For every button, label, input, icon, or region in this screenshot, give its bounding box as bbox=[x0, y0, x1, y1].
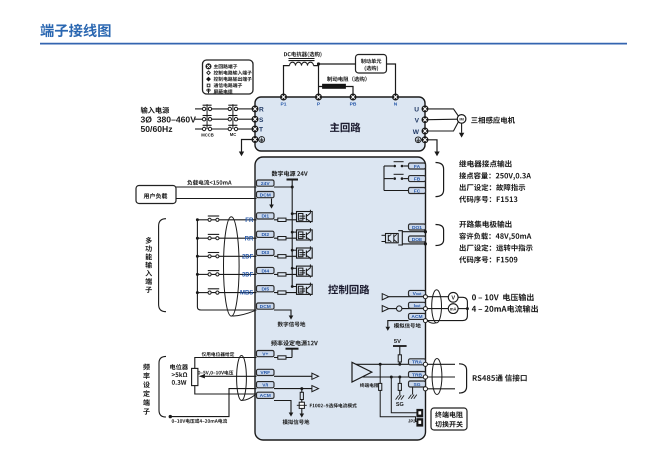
wire TRB external bbox=[428, 376, 456, 378]
breaker MCCB pole R bbox=[202, 105, 211, 110]
svg-text:DI4: DI4 bbox=[261, 268, 269, 274]
wire input 2DF row bbox=[197, 255, 256, 257]
legend text 控制电路输出端子 bbox=[214, 77, 252, 82]
wire input RR row bbox=[197, 237, 256, 239]
terminal box ACM freq bbox=[257, 392, 275, 399]
legend symbol control input terminal bbox=[207, 71, 211, 75]
arrowhead pot wiper bbox=[199, 374, 205, 378]
junction V/I branch bbox=[300, 387, 303, 390]
edge circle TRB bbox=[423, 375, 427, 379]
breaker MCCB pole T bbox=[202, 125, 211, 130]
label 0.3W bbox=[172, 380, 187, 385]
svg-text:FA: FA bbox=[414, 164, 421, 170]
svg-text:ACM: ACM bbox=[411, 314, 422, 320]
control circuit block 控制回路 bbox=[255, 157, 426, 440]
terminal box DOE bbox=[409, 236, 426, 243]
resistor 5V pullup bbox=[398, 355, 401, 362]
wire DI2 to resistor bbox=[274, 237, 297, 239]
svg-text:MC: MC bbox=[230, 132, 237, 137]
wire Iout left bbox=[389, 308, 397, 310]
arrowhead DCM ground bbox=[269, 205, 274, 209]
terminal box TRA bbox=[409, 359, 426, 366]
label 多功能输入端子 (vertical) bbox=[145, 237, 152, 293]
terminal box DI3 bbox=[257, 249, 275, 256]
junction mA loop bbox=[466, 307, 469, 310]
wire external V/I source bbox=[170, 389, 256, 417]
wire DCM2 internal bbox=[274, 310, 291, 316]
svg-text:FR: FR bbox=[245, 218, 254, 224]
resistor TRB pulldown bbox=[398, 383, 401, 390]
wire V to motor bbox=[428, 118, 457, 121]
contactor MC pole R bbox=[228, 105, 238, 110]
wire relay common vertical bbox=[383, 166, 385, 191]
contactor MC linkage bbox=[232, 104, 234, 129]
wire user load to DCM bbox=[176, 198, 257, 200]
svg-text:SG: SG bbox=[413, 382, 420, 388]
wire TRB branch to JP2 bbox=[391, 377, 417, 413]
svg-text:V/I: V/I bbox=[262, 382, 269, 388]
resistor DI2 bbox=[278, 237, 286, 240]
wire input phase S bbox=[195, 118, 252, 120]
junction FR common bbox=[196, 218, 199, 221]
label 终端电阻 bbox=[435, 411, 463, 418]
wire input MBS row bbox=[197, 292, 256, 294]
ground arrow right bbox=[434, 152, 439, 157]
brace 频率设定端子 bbox=[159, 356, 166, 417]
motor M (IM) bbox=[457, 115, 466, 124]
inductor DC reactor bbox=[289, 59, 315, 66]
terminal S bbox=[252, 116, 258, 122]
wire TRA bbox=[356, 363, 409, 365]
label >5kΩ bbox=[172, 372, 188, 377]
junction 24V rail bbox=[291, 186, 294, 189]
legend symbol control output terminal bbox=[207, 77, 211, 81]
terminal box ACM analog out bbox=[409, 313, 426, 320]
buffer amp Vout bbox=[382, 294, 389, 300]
junction TRA termination bbox=[379, 363, 382, 366]
label 0-10V电压或4-20mA电流 bbox=[172, 419, 227, 424]
power rail bar 24V bbox=[287, 179, 299, 181]
svg-text:V+: V+ bbox=[262, 351, 268, 357]
label 容许负载：48V,50mA bbox=[459, 233, 531, 241]
relay contact FB (NC) bbox=[393, 174, 403, 180]
svg-text:R: R bbox=[259, 107, 264, 114]
svg-text:DI1: DI1 bbox=[261, 214, 269, 220]
label 三相感应电机 bbox=[471, 117, 515, 124]
optocoupler DI2 bbox=[292, 228, 312, 241]
wire SG to chassis bbox=[412, 387, 414, 394]
svg-text:mA: mA bbox=[450, 306, 457, 311]
wire DOE to edge bbox=[402, 243, 425, 245]
terminal PE right bbox=[422, 137, 428, 143]
label 继电器接点输出 bbox=[459, 160, 511, 167]
svg-text:V: V bbox=[451, 295, 455, 301]
wire V/I branch down bbox=[301, 389, 303, 414]
ground arrow left bbox=[239, 152, 244, 157]
switch MBS bbox=[208, 289, 219, 294]
terminal P1 bbox=[281, 94, 287, 100]
svg-text:IM: IM bbox=[459, 117, 464, 122]
terminal box V/I bbox=[257, 382, 275, 389]
label 切换开关 bbox=[435, 421, 463, 428]
svg-text:N: N bbox=[394, 102, 398, 108]
switch FR bbox=[208, 216, 219, 221]
label 电位器 bbox=[170, 364, 188, 370]
resistor V+ internal bbox=[278, 356, 286, 359]
wire U to motor bbox=[428, 109, 458, 116]
legend text 控制电路输入端子 bbox=[214, 70, 252, 75]
resistor termination bbox=[379, 383, 382, 390]
wire V+ internal bbox=[274, 349, 292, 358]
label 4-20mA电流输出 bbox=[472, 305, 538, 313]
svg-text:T: T bbox=[259, 127, 263, 134]
junction DO1 edge bbox=[424, 230, 427, 233]
arrowhead ACM freq ground bbox=[289, 413, 294, 417]
junction TRB pulldown bbox=[398, 376, 401, 379]
terminal box TRB bbox=[409, 372, 426, 379]
wire pot top to V+ bbox=[195, 358, 257, 369]
meter V bbox=[448, 292, 458, 302]
wire TRA external bbox=[428, 363, 456, 365]
meter mA bbox=[448, 304, 458, 314]
terminal box Vout bbox=[409, 290, 426, 297]
terminal V bbox=[422, 117, 428, 123]
arrowhead DCM2 ground bbox=[289, 316, 294, 320]
wire mA to loop bbox=[458, 308, 467, 310]
wire 24V rail down bbox=[291, 187, 293, 287]
svg-text:S: S bbox=[259, 117, 264, 124]
legend text 主回路端子 bbox=[214, 64, 238, 69]
edge circle Iout bbox=[423, 307, 427, 311]
svg-text:PB: PB bbox=[350, 102, 357, 108]
resistor DI1 bbox=[278, 218, 286, 221]
svg-text:W: W bbox=[413, 129, 420, 136]
svg-text:3DF: 3DF bbox=[242, 273, 254, 279]
wire motor to ground bbox=[461, 123, 463, 133]
terminal box DO1 bbox=[409, 224, 426, 231]
svg-text:ACM: ACM bbox=[260, 393, 271, 399]
driver triangle RS485 bbox=[352, 362, 372, 382]
wire DCM internal ground stub bbox=[271, 199, 273, 205]
braking unit box 制动单元(选购) bbox=[356, 55, 387, 74]
resistor DI4 bbox=[278, 273, 286, 276]
breaker MCCB linkage bbox=[206, 104, 208, 129]
label 代码序号：F1513 bbox=[459, 196, 517, 203]
terminal N bbox=[393, 94, 399, 100]
junction rail MBS bbox=[291, 285, 294, 288]
junction RR common bbox=[196, 237, 199, 240]
wire DI3 to resistor bbox=[274, 255, 297, 257]
label 输入电源 bbox=[141, 107, 170, 114]
breaker MCCB pole S bbox=[202, 116, 211, 121]
junction P leg / braking unit bbox=[317, 62, 320, 65]
wire right ground elbow bbox=[428, 140, 437, 152]
terminator switch box bbox=[431, 408, 467, 430]
terminal box V+ bbox=[257, 351, 275, 358]
terminal U bbox=[422, 106, 428, 112]
wire DO1 to edge bbox=[402, 231, 425, 233]
shield ellipse analog out bbox=[432, 290, 442, 323]
wire 5V pullup bbox=[399, 346, 401, 364]
terminal box DI1 bbox=[257, 213, 275, 220]
junction 3DF common bbox=[196, 273, 199, 276]
wire DI5 to resistor bbox=[274, 292, 297, 294]
wire Iout right bbox=[402, 308, 448, 310]
shield ellipse frequency set bbox=[237, 356, 247, 401]
svg-text:DI3: DI3 bbox=[261, 250, 269, 256]
resistor DI3 bbox=[278, 255, 286, 258]
wire braking unit right to N bbox=[387, 64, 396, 94]
label 频率设定端子 (vertical) bbox=[143, 364, 150, 415]
power rail bar 12V bbox=[286, 348, 299, 350]
title 端子接线图 bbox=[40, 24, 110, 38]
wire ACM freq internal bbox=[274, 401, 291, 413]
terminal box 24V bbox=[257, 180, 275, 187]
wire DI4 to resistor bbox=[274, 273, 297, 275]
junction rail RR bbox=[291, 231, 294, 234]
label F1002-9选择电流模式 bbox=[310, 403, 357, 408]
junction MBS common bbox=[196, 291, 199, 294]
svg-text:24V: 24V bbox=[261, 181, 270, 187]
svg-text:U: U bbox=[414, 107, 419, 114]
wire input FR row bbox=[197, 219, 256, 221]
svg-text:Vout: Vout bbox=[413, 291, 423, 297]
junction rail 2DF bbox=[291, 249, 294, 252]
wire TRB bbox=[362, 376, 409, 378]
label 出厂设定：运转中指示 bbox=[460, 244, 533, 251]
user load box 用户负载 bbox=[136, 186, 176, 204]
terminal box DCM 2 bbox=[257, 303, 275, 310]
resistor DI5 bbox=[278, 291, 286, 294]
svg-text:V: V bbox=[415, 117, 420, 124]
svg-text:MCCB: MCCB bbox=[201, 133, 214, 138]
current source circle Iout bbox=[397, 306, 402, 311]
svg-text:RR: RR bbox=[245, 236, 254, 242]
svg-text:DCM: DCM bbox=[260, 304, 271, 310]
signal triangle V/I bbox=[312, 386, 319, 392]
wire V/I internal bbox=[274, 388, 312, 390]
svg-text:JP2: JP2 bbox=[408, 418, 416, 423]
label 数字信号地 bbox=[278, 322, 306, 327]
optocoupler DI5 bbox=[292, 283, 312, 296]
wire W to motor bbox=[428, 122, 458, 131]
edge circle Vout bbox=[423, 295, 427, 299]
wire pot bottom to ACM bbox=[195, 386, 257, 394]
shield tail frequency set bbox=[242, 395, 256, 401]
label 负载电流<150mA bbox=[187, 180, 231, 185]
contactor MC pole S bbox=[228, 116, 238, 121]
wire input 3DF row bbox=[197, 273, 256, 275]
svg-text:FC: FC bbox=[414, 188, 421, 194]
wire reactor left leg to P1 bbox=[284, 66, 290, 94]
optocoupler DI3 bbox=[292, 246, 312, 259]
bracket open collector bbox=[436, 225, 444, 246]
wire FA contact bbox=[384, 165, 409, 167]
junction external source dot bbox=[169, 415, 172, 418]
label 制动单元 bbox=[361, 59, 382, 64]
label DC电抗器(选购) bbox=[284, 52, 322, 58]
wire FC common bbox=[384, 190, 409, 192]
label 出厂设定：故障指示 bbox=[460, 184, 526, 191]
brace 多功能输入端子 bbox=[159, 219, 166, 312]
terminal box FA bbox=[409, 163, 426, 170]
terminal box DI4 bbox=[257, 267, 275, 274]
terminal box DI5 bbox=[257, 286, 275, 293]
terminal P bbox=[316, 94, 322, 100]
svg-text:DI5: DI5 bbox=[261, 286, 269, 292]
jumper box F1002-9 bbox=[297, 402, 307, 408]
junction rail FR bbox=[291, 212, 294, 215]
wire user load to 24V bbox=[176, 186, 257, 188]
resistor V/I branch bbox=[300, 392, 303, 399]
chassis ground SG terminal bbox=[408, 395, 416, 399]
wire reactor right leg to P bbox=[314, 66, 319, 94]
svg-text:Iout: Iout bbox=[414, 303, 422, 309]
junction rail 3DF bbox=[291, 267, 294, 270]
terminal box FB bbox=[409, 176, 426, 183]
label 数字电源 24V bbox=[272, 171, 308, 177]
legend text 通信电路端子 bbox=[214, 83, 243, 88]
terminal box DCM 1 bbox=[257, 192, 275, 199]
switch 3DF bbox=[208, 271, 219, 276]
junction TRA pullup bbox=[398, 363, 401, 366]
junction TRB termination bbox=[390, 376, 393, 379]
terminal T bbox=[252, 126, 258, 132]
shield ellipse RS485 bbox=[432, 359, 442, 395]
shield tail digital inputs bbox=[232, 311, 255, 316]
wire DO bracket bbox=[398, 231, 402, 245]
wire braking resistor loop bbox=[319, 87, 354, 95]
wire left ground elbow bbox=[242, 140, 253, 152]
wire TRB pulldown to SG bbox=[399, 377, 401, 395]
edge circle TRA bbox=[423, 362, 427, 366]
switch RR bbox=[208, 234, 219, 239]
legend box bbox=[203, 60, 254, 94]
label 接点容量：250V,0.3A bbox=[459, 172, 531, 180]
svg-text:TRA: TRA bbox=[412, 360, 423, 366]
wire termination resistor to JP2 bbox=[380, 364, 417, 421]
wire digital common vertical bbox=[197, 220, 256, 310]
main circuit block 主回路 bbox=[255, 97, 425, 151]
wire pot wiper to VRF bbox=[205, 375, 257, 377]
chassis ground SG internal bbox=[396, 395, 404, 399]
label 主回路 bbox=[330, 122, 361, 132]
wire SG external bbox=[428, 388, 456, 390]
edge circle SG bbox=[423, 387, 427, 391]
svg-text:5V: 5V bbox=[394, 339, 401, 345]
label 模拟信号地 bottom bbox=[283, 419, 310, 424]
signal triangle VRF bbox=[312, 373, 319, 379]
legend symbol communication terminal bbox=[207, 84, 210, 87]
label RS485通信接口 bbox=[473, 374, 527, 381]
svg-text:DCM: DCM bbox=[260, 192, 271, 198]
title underline bbox=[40, 43, 627, 45]
potentiometer body bbox=[192, 368, 198, 385]
svg-text:TRB: TRB bbox=[412, 372, 423, 378]
label 仅用电位器给定 bbox=[202, 352, 235, 357]
wire 24V to rail bbox=[274, 180, 292, 188]
svg-text:VRF: VRF bbox=[260, 370, 270, 376]
edge circle ACM out bbox=[423, 319, 427, 323]
terminal box Iout bbox=[409, 302, 426, 309]
label 控制回路 bbox=[328, 285, 369, 295]
svg-text:DI2: DI2 bbox=[261, 232, 269, 238]
legend text 屏蔽电缆 bbox=[214, 89, 233, 94]
label 频率设定电源12V bbox=[271, 340, 318, 346]
power rail bar 5V bbox=[393, 345, 407, 347]
wire VRF internal bbox=[274, 375, 312, 377]
legend symbol main-circuit terminal bbox=[206, 64, 211, 69]
terminal box VRF bbox=[257, 369, 275, 376]
wire braking unit left to P leg bbox=[319, 63, 356, 65]
wire DI1 to resistor bbox=[274, 219, 297, 221]
ground arrow motor bbox=[459, 133, 464, 138]
resistor braking (filled) bbox=[323, 84, 346, 88]
terminal PE left bbox=[252, 137, 258, 143]
wire ACM internal to ground bbox=[388, 321, 409, 327]
optocoupler DI4 bbox=[292, 264, 312, 277]
svg-text:2DF: 2DF bbox=[242, 254, 254, 260]
earth symbol left bbox=[259, 137, 265, 143]
bracket relay output bbox=[436, 163, 444, 197]
label 模拟信号地 right bbox=[394, 323, 421, 328]
wire input phase T bbox=[195, 128, 252, 130]
arrowhead analog ground right bbox=[386, 327, 391, 331]
svg-text:FB: FB bbox=[414, 176, 421, 182]
terminal R bbox=[252, 106, 258, 112]
label 代码序号：F1509 bbox=[459, 256, 517, 263]
earth symbol right bbox=[415, 137, 421, 143]
legend symbol shielded cable bbox=[207, 89, 210, 93]
terminal box SG bbox=[409, 381, 426, 388]
optocoupler DI1 bbox=[292, 210, 312, 223]
contactor MC pole T bbox=[228, 125, 238, 130]
wire input phase R bbox=[195, 108, 252, 110]
svg-text:50/60Hz: 50/60Hz bbox=[141, 124, 173, 134]
svg-text:DOE: DOE bbox=[412, 237, 423, 243]
wire meter loop bbox=[427, 297, 467, 320]
svg-text:P1: P1 bbox=[281, 102, 287, 108]
label 制动电阻（选购） bbox=[327, 76, 367, 81]
terminal box DI2 bbox=[257, 231, 275, 238]
label 0-10V 电压输出 bbox=[472, 293, 534, 301]
shield ellipse digital inputs bbox=[224, 217, 240, 316]
bracket RS485 bbox=[459, 364, 467, 393]
buffer amp Iout bbox=[382, 306, 389, 312]
wire FB contact bbox=[384, 178, 409, 180]
switch 2DF bbox=[208, 253, 219, 258]
label 用户负载 bbox=[144, 193, 168, 199]
terminal PB bbox=[350, 94, 356, 100]
svg-text:MBS: MBS bbox=[240, 291, 253, 297]
shield tail analog out bbox=[427, 321, 436, 323]
svg-text:SG: SG bbox=[396, 402, 404, 408]
wire Vout bbox=[389, 296, 449, 298]
label (选购) bbox=[365, 66, 379, 72]
jumper JP2 bbox=[417, 409, 423, 426]
terminal W bbox=[422, 128, 428, 134]
optocoupler DO bbox=[382, 234, 399, 243]
label 0-5V,0-10V电压 bbox=[198, 370, 233, 375]
terminal box FC bbox=[409, 188, 426, 195]
arrowhead V/I branch ground bbox=[300, 414, 305, 418]
junction DOE edge bbox=[424, 242, 427, 245]
relay contact FA (NO) bbox=[393, 162, 403, 168]
label 终端电阻 bbox=[360, 383, 379, 387]
label 开路集电极输出 bbox=[459, 221, 511, 228]
junction 2DF common bbox=[196, 255, 199, 258]
svg-text:DO1: DO1 bbox=[412, 225, 422, 231]
